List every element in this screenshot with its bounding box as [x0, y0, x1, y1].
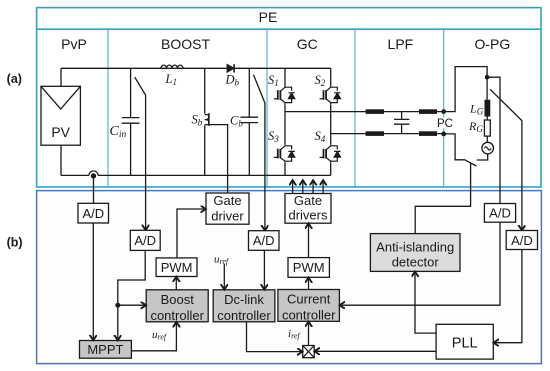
wire O-PG loop top — [444, 67, 487, 112]
wire bottom rail right of bump — [98, 174, 331, 176]
wire PWM to Gate driver — [177, 209, 206, 258]
svg-text:LPF: LPF — [388, 36, 414, 52]
wire uref to Dc-link controller — [223, 264, 225, 290]
wire RG to source — [486, 136, 488, 142]
wire PLL to anti-islanding detector — [415, 272, 436, 334]
svg-text:PLL: PLL — [452, 336, 478, 352]
wire LG-RG — [486, 117, 488, 121]
bridge left leg — [284, 68, 286, 175]
capacitor Cin — [122, 68, 140, 175]
svg-text:Gate: Gate — [294, 193, 322, 208]
svg-text:detector: detector — [392, 255, 440, 270]
svg-text:MPPT: MPPT — [87, 342, 123, 357]
node dot top of grid branch — [485, 75, 490, 80]
resistor Rg — [484, 120, 490, 136]
wire Boost controller to PWM — [175, 277, 177, 290]
svg-text:(a): (a) — [7, 72, 22, 86]
inductor LPF L2b — [419, 131, 437, 136]
wire gate drive 1 — [292, 180, 294, 193]
svg-text:Dc-link: Dc-link — [224, 292, 264, 307]
svg-text:A/D: A/D — [134, 233, 156, 248]
wire tap diagonal to A/D — [490, 89, 522, 230]
svg-text:(b): (b) — [7, 235, 23, 249]
wire AC line 2 — [331, 133, 444, 135]
wire bottom rail left of sensor bump — [61, 174, 89, 176]
svg-text:Boost: Boost — [161, 292, 195, 307]
wire PV bottom — [60, 145, 62, 175]
tap wire to A/D (PV voltage) — [135, 77, 146, 230]
svg-text:Gate: Gate — [213, 193, 241, 208]
svg-text:drivers: drivers — [288, 208, 328, 223]
diode Db — [227, 65, 234, 72]
column separator BOOST|GC — [266, 29, 268, 187]
svg-text:A/D: A/D — [253, 233, 275, 248]
wire A/D2 down-left — [118, 250, 145, 340]
wire node to Boost controller — [118, 304, 146, 306]
wire breaker control to anti-islanding — [415, 163, 470, 233]
block A/D 1 — [78, 203, 109, 223]
svg-text:driver: driver — [211, 208, 244, 223]
wire PWM2 to Gate drivers — [308, 223, 310, 257]
node junction dot (A/D2 branch) — [115, 303, 120, 308]
svg-text:PV: PV — [51, 124, 70, 140]
block Anti-islanding detector — [370, 234, 460, 272]
svg-text:A/D: A/D — [489, 206, 511, 221]
transistor Sb (boost switch) — [204, 68, 206, 175]
column separator LPF|O-PG — [443, 29, 445, 187]
block Gate drivers — [285, 194, 331, 224]
node PC dot2 — [441, 132, 446, 137]
block A/D 4 — [484, 204, 515, 223]
inductor LPF L2a — [366, 131, 384, 136]
block PWM 1 — [156, 258, 197, 277]
svg-text:controller: controller — [282, 308, 336, 323]
block PLL — [436, 324, 493, 359]
inductor LG — [485, 100, 491, 117]
wire PV top to top rail — [60, 68, 62, 86]
wire PLL to multiplier — [314, 350, 436, 352]
transistor S1 — [274, 86, 295, 105]
svg-text:PE: PE — [259, 9, 278, 25]
wire AC line 1 — [285, 111, 444, 113]
svg-text:PWM: PWM — [161, 260, 193, 275]
block A/D 2 — [130, 230, 160, 250]
column separator GC|LPF — [354, 29, 356, 187]
AC source — [482, 142, 494, 154]
block Dc-link controller — [213, 290, 275, 322]
wire multiplier to Current controller — [308, 322, 310, 346]
multiplier — [303, 346, 315, 358]
node PC dot1 — [441, 109, 446, 114]
svg-text:O-PG: O-PG — [475, 36, 511, 52]
svg-text:controller: controller — [217, 308, 271, 323]
block Boost controller — [146, 290, 208, 322]
wire A/D5 to PLL — [494, 250, 522, 343]
switch blade (grid breaker) — [465, 160, 476, 166]
svg-text:GC: GC — [297, 36, 318, 52]
wire MPPT to Boost controller — [131, 322, 176, 351]
box b outer — [37, 191, 542, 364]
transistor S4 — [320, 144, 341, 163]
inductor LPF L1b — [419, 109, 437, 114]
wire gate drive 2 — [302, 180, 304, 193]
wire top rail — [61, 67, 331, 69]
column separator PvP|BOOST — [107, 29, 109, 187]
block A/D 3 — [249, 231, 280, 251]
transistor S2 — [320, 86, 341, 105]
PE band line — [37, 28, 541, 30]
block MPPT — [80, 341, 132, 359]
block Gate driver — [206, 193, 249, 224]
svg-text:PC: PC — [437, 118, 453, 130]
wire tap to A/D grid voltage — [487, 77, 500, 203]
inductor L1 — [161, 65, 183, 68]
bridge right leg — [330, 68, 332, 175]
inductor LPF L1a — [366, 109, 384, 114]
node dot on bottom rail (sensor) — [91, 173, 96, 178]
wire A/D1 to MPPT — [92, 223, 94, 340]
capacitor Cb — [241, 68, 259, 175]
wire from dot to LG — [486, 79, 488, 99]
PV panel — [41, 86, 80, 145]
wire Current controller to PWM2 — [308, 278, 310, 290]
wire dot on rail to A/D1 — [93, 176, 95, 203]
wire source bottom to switch — [477, 154, 488, 160]
svg-text:Anti-islanding: Anti-islanding — [376, 239, 454, 254]
LPF shunt capacitor — [394, 112, 409, 134]
wire Dc-link controller to multiplier — [247, 322, 303, 352]
svg-text:Current: Current — [287, 291, 331, 306]
svg-text:A/D: A/D — [82, 206, 104, 221]
block Current controller — [278, 290, 340, 322]
block PWM 2 — [288, 258, 329, 278]
wire O-PG loop bottom — [444, 134, 466, 160]
wire gate drive 4 — [322, 180, 324, 193]
block A/D 5 — [506, 231, 537, 250]
box PE (section a outer) — [37, 8, 541, 187]
wire A/D4 to Current controller — [340, 222, 500, 305]
svg-text:PWM: PWM — [293, 260, 325, 275]
section b wires — [93, 176, 522, 352]
wire A/D3 to Dc-link controller — [263, 250, 265, 289]
svg-text:PvP: PvP — [61, 36, 87, 52]
svg-text:A/D: A/D — [511, 233, 533, 248]
svg-text:controller: controller — [150, 308, 204, 323]
svg-text:BOOST: BOOST — [161, 36, 210, 52]
transistor S3 — [274, 144, 295, 163]
tap wire to A/D (DC-link voltage) — [254, 75, 265, 231]
node PC label — [437, 118, 453, 129]
sensor bump on bottom rail — [89, 171, 98, 176]
wire gate drive 3 — [312, 180, 314, 193]
